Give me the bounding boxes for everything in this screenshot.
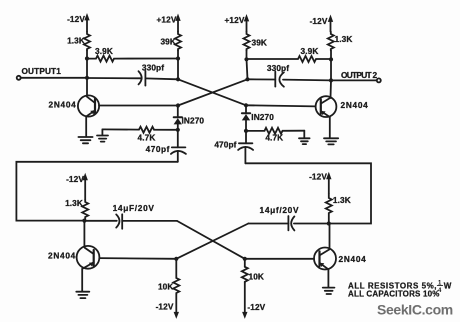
wire base Q3 (99, 257, 176, 260)
ground left 4.7K (97, 129, 108, 141)
resistor 3.9K right horizontal (247, 56, 332, 62)
transistor Q4 2N404 bottom-right (314, 248, 336, 270)
resistor 1.3K bottom-left (82, 200, 88, 221)
capacitor 330pf left (87, 71, 178, 86)
resistor 1.3K bottom-right (326, 194, 332, 224)
svg-text:330pf: 330pf (267, 63, 289, 73)
svg-text:-12V: -12V (156, 301, 174, 311)
wire column C (247, 51, 248, 80)
svg-text:+12V: +12V (156, 15, 176, 25)
svg-text:2N404: 2N404 (49, 100, 77, 110)
node C2 (245, 77, 249, 81)
svg-text:2N404: 2N404 (48, 251, 76, 261)
svg-text:470pf: 470pf (214, 140, 236, 150)
wire diagonal B to base Q2 (178, 79, 246, 105)
svg-text:-12V: -12V (247, 302, 265, 312)
wire base Q1 (99, 105, 178, 107)
power -12V arrow top-left (84, 13, 89, 32)
resistor 4.7K right (246, 128, 304, 134)
capacitor 330pf right (248, 72, 332, 87)
power +12V arrow column C (244, 14, 249, 32)
svg-text:2N404: 2N404 (341, 100, 369, 110)
node B1 (176, 56, 180, 60)
wire base Q4 (245, 258, 314, 260)
svg-text:-12V: -12V (67, 14, 85, 24)
svg-text:330pf: 330pf (142, 63, 164, 73)
svg-text:ALL CAPACITORS 10%: ALL CAPACITORS 10% (348, 290, 440, 299)
node D1 (329, 57, 333, 61)
power +12V arrow column B (175, 14, 180, 32)
diode IN270 right (242, 105, 250, 131)
svg-text:+12V: +12V (224, 15, 244, 25)
wire collector Q4 (329, 224, 331, 249)
wire collector Q3 (83, 221, 85, 247)
node left diode bottom (176, 128, 180, 132)
svg-text:3.9K: 3.9K (95, 46, 113, 56)
transistor Q2 2N404 top-right (316, 96, 337, 117)
node base Q4 (243, 257, 247, 261)
wire right feedback (245, 163, 371, 223)
svg-text:1.3K: 1.3K (67, 36, 85, 46)
svg-text:OUTPUT1: OUTPUT1 (22, 66, 62, 76)
node base Q3 (174, 257, 178, 261)
svg-text:2N404: 2N404 (339, 254, 367, 264)
resistor 1.3K top-left (84, 32, 90, 51)
resistor 3.9K left horizontal (87, 56, 178, 62)
output 2 terminal (377, 78, 381, 82)
output 1 terminal (17, 76, 21, 80)
capacitor 470pf left (171, 130, 186, 162)
wire emitter Q4 (327, 269, 329, 287)
svg-text:4.7K: 4.7K (265, 133, 283, 143)
wire diagonal base Q3 up (176, 224, 248, 259)
power -12V arrow column D (328, 15, 333, 32)
wire output1 (21, 77, 87, 79)
capacitor 14uF/20V left (84, 214, 177, 229)
wire column B (177, 51, 179, 80)
transistor Q1 2N404 top-left (78, 95, 99, 116)
svg-text:SeekIC.com: SeekIC.com (377, 302, 453, 318)
wire output2 (331, 79, 377, 81)
wire diagonal A' to base Q4 (177, 221, 245, 259)
power -12V arrow bottom-right column (326, 172, 331, 194)
ground below Q4 (323, 288, 335, 294)
ground below Q1 (78, 137, 92, 143)
ground right 4.7K (299, 131, 310, 144)
svg-text:1.3K: 1.3K (65, 198, 83, 208)
svg-text:OUTPUT 2: OUTPUT 2 (341, 70, 378, 80)
resistor 39K left (175, 32, 181, 51)
node D2 output2 (329, 78, 333, 82)
wire emitter Q2 (329, 117, 331, 138)
svg-text:14μf/20V: 14μf/20V (260, 205, 300, 215)
node C3 base Q2 (244, 103, 248, 107)
wire long left feedback (16, 162, 177, 221)
node A' (82, 219, 86, 223)
svg-text:39K: 39K (252, 38, 268, 48)
svg-text:IN270: IN270 (182, 116, 205, 126)
wire collector Q2 (330, 80, 333, 98)
svg-text:-12V: -12V (309, 171, 327, 181)
svg-text:-12V: -12V (66, 174, 84, 184)
node right diode bottom (244, 129, 248, 133)
svg-text:10K: 10K (158, 282, 174, 292)
svg-text:1.3K: 1.3K (335, 34, 353, 44)
svg-text:10K: 10K (249, 272, 265, 282)
power -12V arrow bottom-left column (83, 173, 88, 200)
node A1 (85, 56, 89, 60)
node C1 (244, 57, 248, 61)
svg-text:470pf: 470pf (146, 144, 170, 154)
wire diagonal base Q1 to C (178, 79, 248, 105)
svg-text:1.3K: 1.3K (333, 195, 351, 205)
node B2 (176, 77, 180, 81)
transistor Q3 2N404 bottom-left (77, 246, 100, 269)
svg-text:3.9K: 3.9K (301, 46, 319, 56)
node B3 base Q1 (176, 103, 180, 107)
svg-text:4.7K: 4.7K (138, 133, 156, 143)
svg-text:W: W (444, 282, 452, 291)
svg-text:IN270: IN270 (251, 112, 274, 122)
ground below Q2 (324, 138, 338, 144)
ground below Q3 (76, 292, 89, 298)
resistor 39K right (244, 32, 250, 51)
wire column D (330, 51, 332, 81)
diode IN270 left (174, 106, 182, 130)
wire emitter Q1 (85, 117, 87, 137)
resistor 4.7K left (102, 127, 177, 133)
capacitor 470pf right (238, 131, 253, 163)
node A2 output1 (85, 76, 89, 80)
wire emitter Q3 (81, 269, 83, 291)
node D' (327, 221, 331, 225)
resistor 10K right (242, 259, 248, 319)
resistor 1.3K top-right (328, 32, 334, 51)
capacitor 14uf/20V right (248, 216, 328, 230)
svg-text:39K: 39K (160, 37, 176, 47)
resistor 10K left (173, 259, 179, 319)
wire collector Q1 (86, 78, 88, 96)
svg-text:-12V: -12V (310, 16, 328, 26)
wire column A upper (86, 51, 88, 78)
note fraction 1/4 W (437, 281, 452, 294)
wire base Q2 (246, 105, 316, 106)
svg-text:14μF/20V: 14μF/20V (113, 203, 155, 213)
